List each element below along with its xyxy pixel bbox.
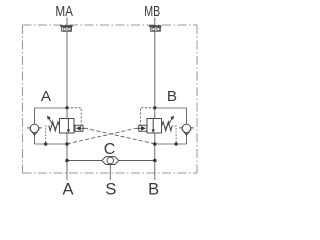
svg-text:MA: MA xyxy=(55,3,73,20)
svg-text:A: A xyxy=(62,180,73,198)
svg-text:A: A xyxy=(41,88,52,105)
svg-text:B: B xyxy=(167,88,177,105)
svg-text:C: C xyxy=(104,141,116,158)
svg-text:B: B xyxy=(148,180,159,198)
svg-text:MB: MB xyxy=(144,3,160,20)
svg-text:S: S xyxy=(105,180,116,198)
